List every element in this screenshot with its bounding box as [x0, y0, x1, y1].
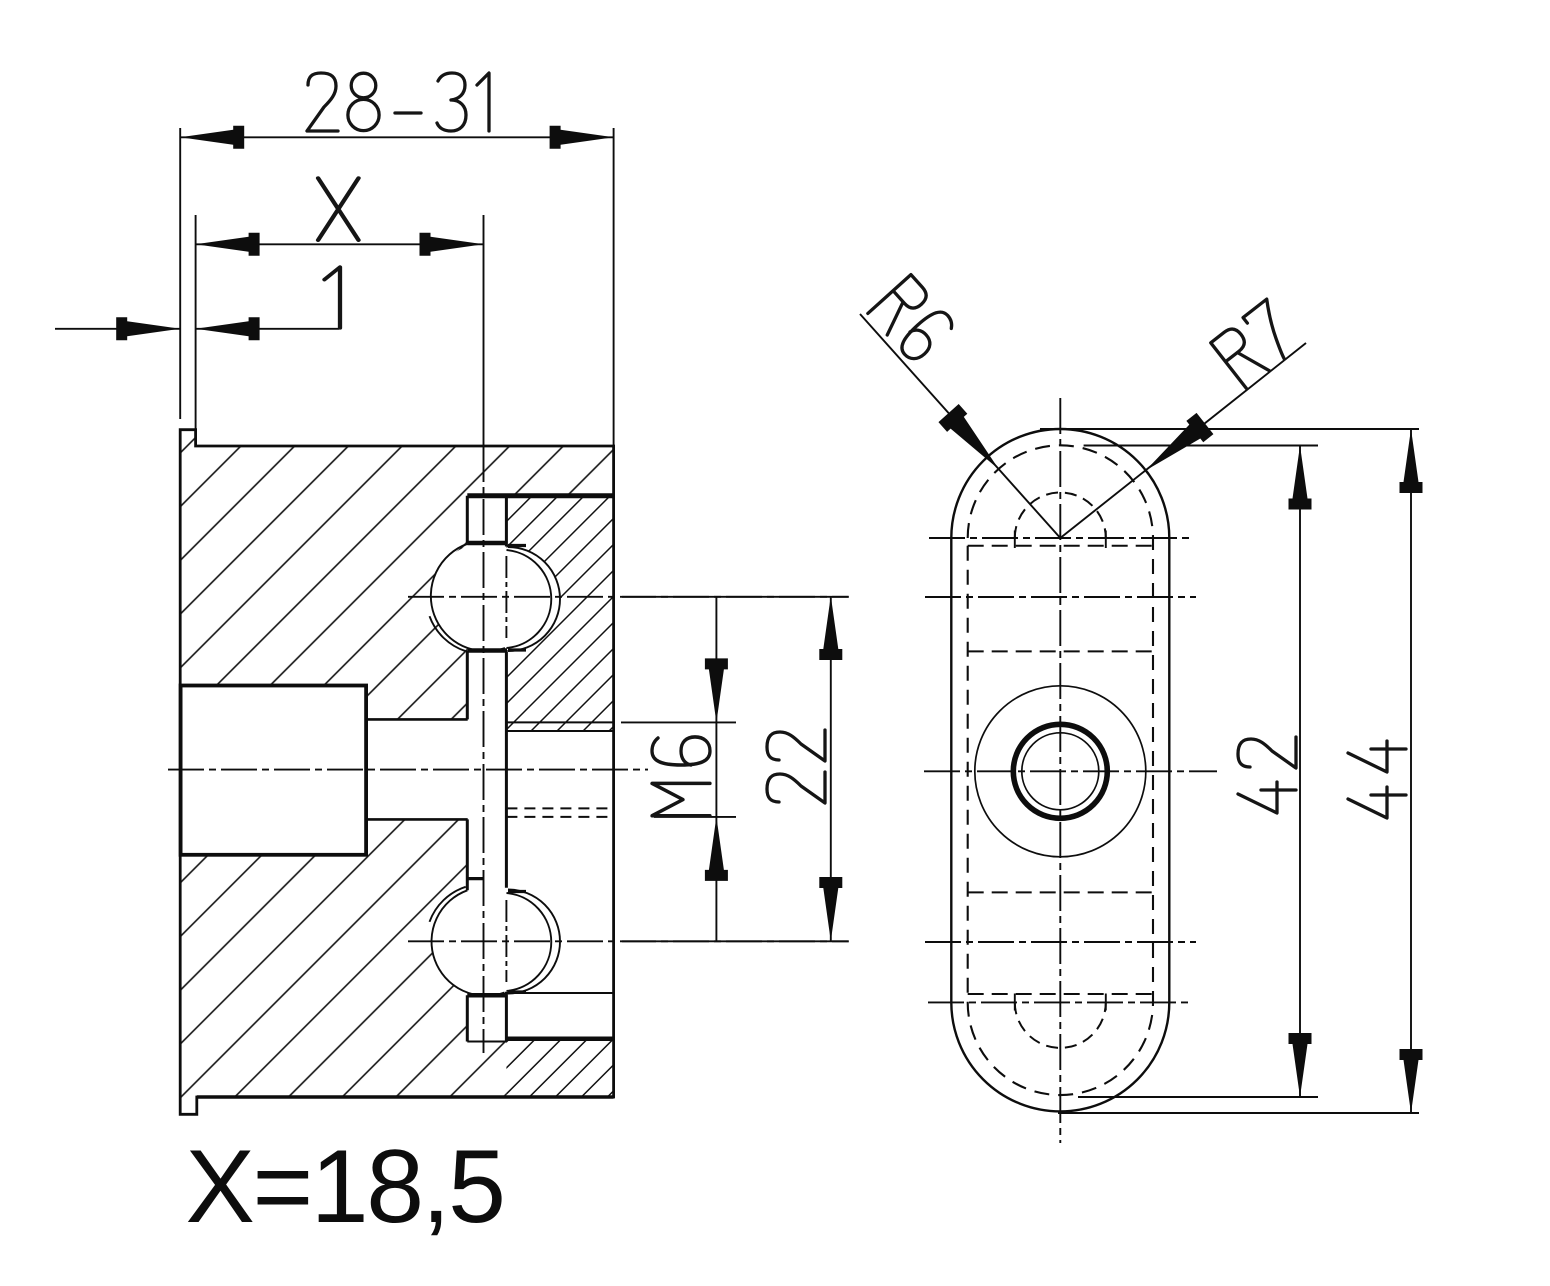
section view: lower ball centerline — [408, 940, 849, 942]
dimension 1: dimension lines — [55, 328, 339, 330]
svg-text:X=18,5: X=18,5 — [186, 1129, 504, 1245]
section view: M6 thread root dashed lines — [506, 808, 613, 817]
dimension 44: extension lines — [1040, 429, 1419, 1113]
radius R7: leader line — [1060, 343, 1306, 538]
section view: upper counterbore arc lower-left — [430, 616, 466, 651]
section view: upper seat inner arc — [507, 550, 552, 648]
section view: right band top line — [506, 992, 613, 994]
section view: upper pocket shoulder lines — [467, 541, 507, 546]
section view: screw insert dense hatching (upper right column) — [506, 496, 613, 731]
section view: slot left edge segments — [466, 496, 469, 1042]
dimension M6: extension lines — [621, 722, 736, 817]
dimension 1: arrows — [116, 317, 259, 340]
section view: cavity axis centerline — [168, 769, 648, 771]
dimension 1: label — [324, 267, 340, 328]
dimension 42: label — [1238, 737, 1296, 813]
section view: upper ball arc — [431, 544, 505, 651]
front view: vertical centerline — [1059, 398, 1061, 1143]
section view: bottom edge emphasis — [197, 1095, 614, 1099]
dimension 42: extension lines — [1078, 446, 1318, 1098]
section view: lower seat end ticks — [467, 879, 526, 992]
dimension 22: extension lines (ball centerline extensions) — [622, 597, 849, 942]
front view: hidden feature horizontal lines — [968, 546, 1153, 994]
front view: lower pocket hidden semicircle — [1015, 1002, 1106, 1048]
section view: slot top thick line — [467, 493, 613, 498]
dimension 22: dimension line — [830, 596, 832, 941]
section view: upper ball centerline — [408, 596, 849, 598]
front view: upper ball centerline — [925, 596, 1196, 598]
section view: part outline with top and bottom left lips — [180, 430, 613, 1115]
dimension M6: dimension line — [715, 596, 717, 941]
front view: hole centerline — [924, 770, 1217, 772]
front view: top arc centerline — [929, 537, 1192, 539]
front view: lower ball centerline — [925, 941, 1196, 943]
front view: bottom arc centerline — [928, 1001, 1191, 1003]
dimension M6: arrows — [705, 658, 728, 881]
dimension M6: label — [652, 737, 710, 816]
front view: pocket semicircle end ticks — [1015, 531, 1106, 1011]
dimension 42: dimension line — [1299, 446, 1301, 1098]
section view: M6 thread crest lines — [506, 722, 613, 731]
section view: lower counterbore arc upper-left — [430, 887, 466, 922]
section view: rectangular side cavity border — [181, 686, 367, 855]
radius R6: label — [868, 275, 957, 364]
section view: horizontal channel walls — [366, 719, 468, 819]
section view: upper seat outer arc — [508, 547, 560, 651]
section view: block body hatching — [180, 430, 613, 1115]
front view: spot-face circle — [975, 686, 1146, 857]
section view: slot axis centerline — [483, 446, 485, 1053]
dimension 22: label — [767, 730, 825, 803]
section view: lower ball arc — [432, 890, 505, 995]
dimension X: extension line — [195, 215, 197, 430]
front view: upper pocket hidden semicircle — [1015, 493, 1106, 539]
section view: lower seat inner arc — [507, 893, 552, 991]
radius R6: leader line — [860, 314, 1060, 538]
section view: white voids (side cavity, channel, slot, ball pockets, threaded band) — [181, 496, 614, 1042]
radius R6: arrow — [938, 404, 1009, 478]
dimension 28-31: dimension line — [180, 136, 613, 138]
section view: lower pocket bottom thick line — [467, 993, 506, 998]
dimension X: arrows — [196, 233, 484, 256]
front view: M6 thread major circle (bold) — [1013, 724, 1107, 818]
section view: slot axis extension line (solid above part) — [483, 215, 485, 446]
dimension X: label — [318, 178, 359, 240]
dimension 44: dimension line — [1410, 429, 1412, 1113]
section view: upper seat end ticks — [508, 546, 526, 651]
section view: slot right edge segments — [505, 496, 508, 1042]
dimension 44: label — [1348, 741, 1406, 818]
dimension X: dimension line — [196, 243, 484, 245]
section view: slot bottom line — [467, 1041, 506, 1043]
section view: right band bottom thick line — [506, 1037, 613, 1042]
dimension 28-31: arrows — [180, 126, 613, 149]
section view: screw insert dense hatching (lower right column) — [506, 1039, 613, 1097]
dimension 28-31: label — [307, 73, 489, 131]
front view: inner stadium hidden outline — [968, 445, 1153, 1095]
section view: lower seat outer arc — [508, 890, 560, 994]
front view: M6 thread minor circle — [1022, 733, 1099, 810]
dimension 42: arrows — [1289, 446, 1312, 1098]
front view: outer stadium outline — [951, 429, 1169, 1111]
section view: seat axis centerline ticks — [505, 556, 507, 982]
radius R7: arrow — [1137, 413, 1213, 481]
dimension 28-31: extension lines — [180, 128, 613, 446]
radius R7: label — [1211, 299, 1303, 388]
dimension 22: arrows — [819, 596, 842, 941]
dimension 44: arrows — [1400, 429, 1423, 1113]
